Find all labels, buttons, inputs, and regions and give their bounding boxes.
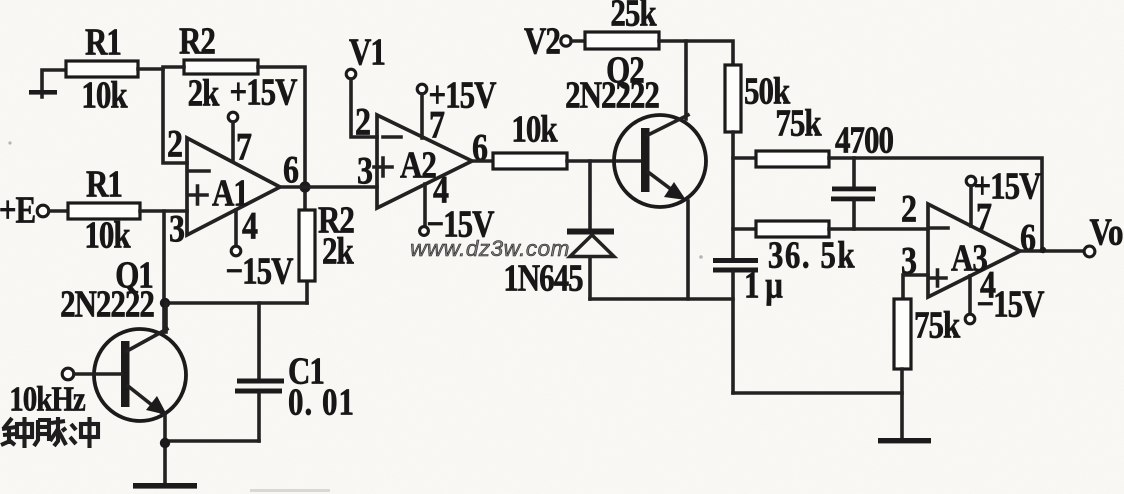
clock input terminal — [9, 368, 121, 418]
ground (A3 network) — [878, 438, 931, 443]
spine wire — [731, 132, 735, 259]
svg-text:10k: 10k — [84, 213, 131, 256]
wire 75k to ground — [900, 369, 904, 440]
svg-text:2k: 2k — [188, 71, 220, 114]
resistor 10k (A2 to Q2) — [493, 107, 567, 169]
svg-text:6: 6 — [283, 147, 299, 191]
+15V terminal (A3 pin7) — [966, 164, 1041, 226]
resistor R2 (top, 2k feedback) — [179, 19, 258, 114]
svg-text:2N2222: 2N2222 — [60, 282, 154, 325]
svg-text:3: 3 — [169, 206, 185, 250]
op-amp A2 — [355, 99, 488, 211]
node A (R1/R2 junction) — [163, 69, 187, 163]
+15V terminal (A1 pin7) — [228, 70, 297, 168]
wire R1 to node — [138, 67, 163, 71]
svg-text:+15V: +15V — [428, 73, 496, 116]
wire node to R2/C1 (y=303) — [164, 301, 307, 305]
wire A2 out — [472, 159, 493, 163]
junction — [160, 298, 170, 308]
op-amp A3 — [901, 186, 1036, 306]
svg-text:10k: 10k — [511, 107, 558, 150]
svg-text:10kHz: 10kHz — [9, 379, 85, 418]
resistor R1 (input, 10k) — [68, 162, 140, 256]
Vo output terminal — [1084, 210, 1123, 257]
svg-text:V2: V2 — [524, 19, 560, 62]
svg-text:25k: 25k — [610, 0, 657, 34]
wire to A3 pin2 — [829, 227, 928, 231]
wire 25k to spine — [659, 41, 733, 65]
svg-text:+15V: +15V — [973, 164, 1041, 207]
svg-text:4700: 4700 — [835, 118, 894, 161]
V2 input terminal — [524, 19, 585, 62]
svg-text:2N2222: 2N2222 — [565, 73, 659, 116]
svg-text:R1: R1 — [86, 162, 122, 205]
svg-text:3: 3 — [357, 148, 373, 192]
svg-text:4: 4 — [242, 203, 258, 247]
wire Q1 collector to pin3 node — [162, 211, 166, 332]
svg-text:+E: +E — [0, 188, 35, 231]
svg-text:1N645: 1N645 — [503, 256, 583, 299]
resistor 36.5k — [733, 221, 856, 276]
svg-text:+15V: +15V — [229, 70, 297, 113]
capacitor 4700 — [831, 118, 894, 229]
svg-text:36. 5k: 36. 5k — [768, 233, 856, 276]
svg-text:0. 01: 0. 01 — [288, 380, 355, 423]
-15V terminal (A3 pin4) — [965, 276, 1044, 325]
svg-text:www.dz3w.com: www.dz3w.com — [410, 236, 570, 261]
label 钟脉冲 (clock pulse) — [1, 417, 98, 448]
svg-text:A2: A2 — [400, 143, 436, 186]
resistor 75k (top) — [733, 101, 829, 167]
svg-text:2: 2 — [167, 121, 183, 165]
ground (Q1 emitter) — [133, 483, 197, 489]
transistor Q2 — [565, 41, 706, 299]
-15V terminal (A1 pin4) — [225, 210, 293, 292]
resistor 25k — [585, 0, 659, 49]
svg-text:R1: R1 — [85, 20, 121, 63]
-15V terminal (A2 pin4) — [420, 184, 495, 245]
ground (top-left) — [29, 70, 66, 97]
diode 1N645 — [503, 161, 614, 299]
V1 input terminal — [346, 30, 385, 137]
svg-text:2: 2 — [901, 186, 917, 230]
wire bottom node (diode/emitter/1u) — [590, 297, 733, 301]
transistor Q1 — [60, 253, 186, 483]
svg-text:R2: R2 — [179, 19, 215, 62]
svg-text:Vo: Vo — [1089, 210, 1123, 253]
svg-text:V1: V1 — [349, 30, 385, 73]
wire to 75k bottom — [733, 391, 902, 395]
svg-text:−15V: −15V — [225, 249, 293, 292]
resistor R1 (top-left) — [66, 20, 138, 116]
svg-text:75k: 75k — [914, 303, 961, 346]
feedback wire to A3 output — [829, 158, 1042, 251]
wire A3 pin3 to 75k — [903, 275, 928, 299]
capacitor C1 — [235, 303, 355, 441]
capacitor 1u — [713, 258, 783, 393]
+E input terminal — [0, 188, 68, 231]
wire A1 out to A2 pin3 — [280, 185, 377, 189]
op-amp A1 — [167, 121, 299, 250]
svg-text:−15V: −15V — [976, 282, 1044, 325]
wire to Q2 base — [567, 159, 642, 163]
svg-text:7: 7 — [236, 124, 252, 168]
+15V terminal (A2 pin7) — [417, 73, 496, 138]
resistor 75k (bottom vertical) — [894, 299, 961, 369]
svg-text:2: 2 — [355, 99, 371, 143]
junction — [160, 438, 170, 448]
resistor R2 (vertical 2k) — [299, 187, 354, 303]
wire R2 right to A1 output — [163, 67, 305, 187]
svg-text:75k: 75k — [775, 101, 822, 144]
svg-text:10k: 10k — [81, 73, 128, 116]
scan speck — [8, 141, 11, 144]
svg-text:2k: 2k — [322, 229, 354, 272]
wire A3 output to Vo — [1020, 249, 1084, 253]
resistor 50k (vertical) — [725, 65, 791, 132]
node B (A1 output junction) — [299, 181, 310, 192]
wire to A1 pin3 — [140, 209, 187, 213]
wire C1 return to emitter — [165, 439, 259, 443]
